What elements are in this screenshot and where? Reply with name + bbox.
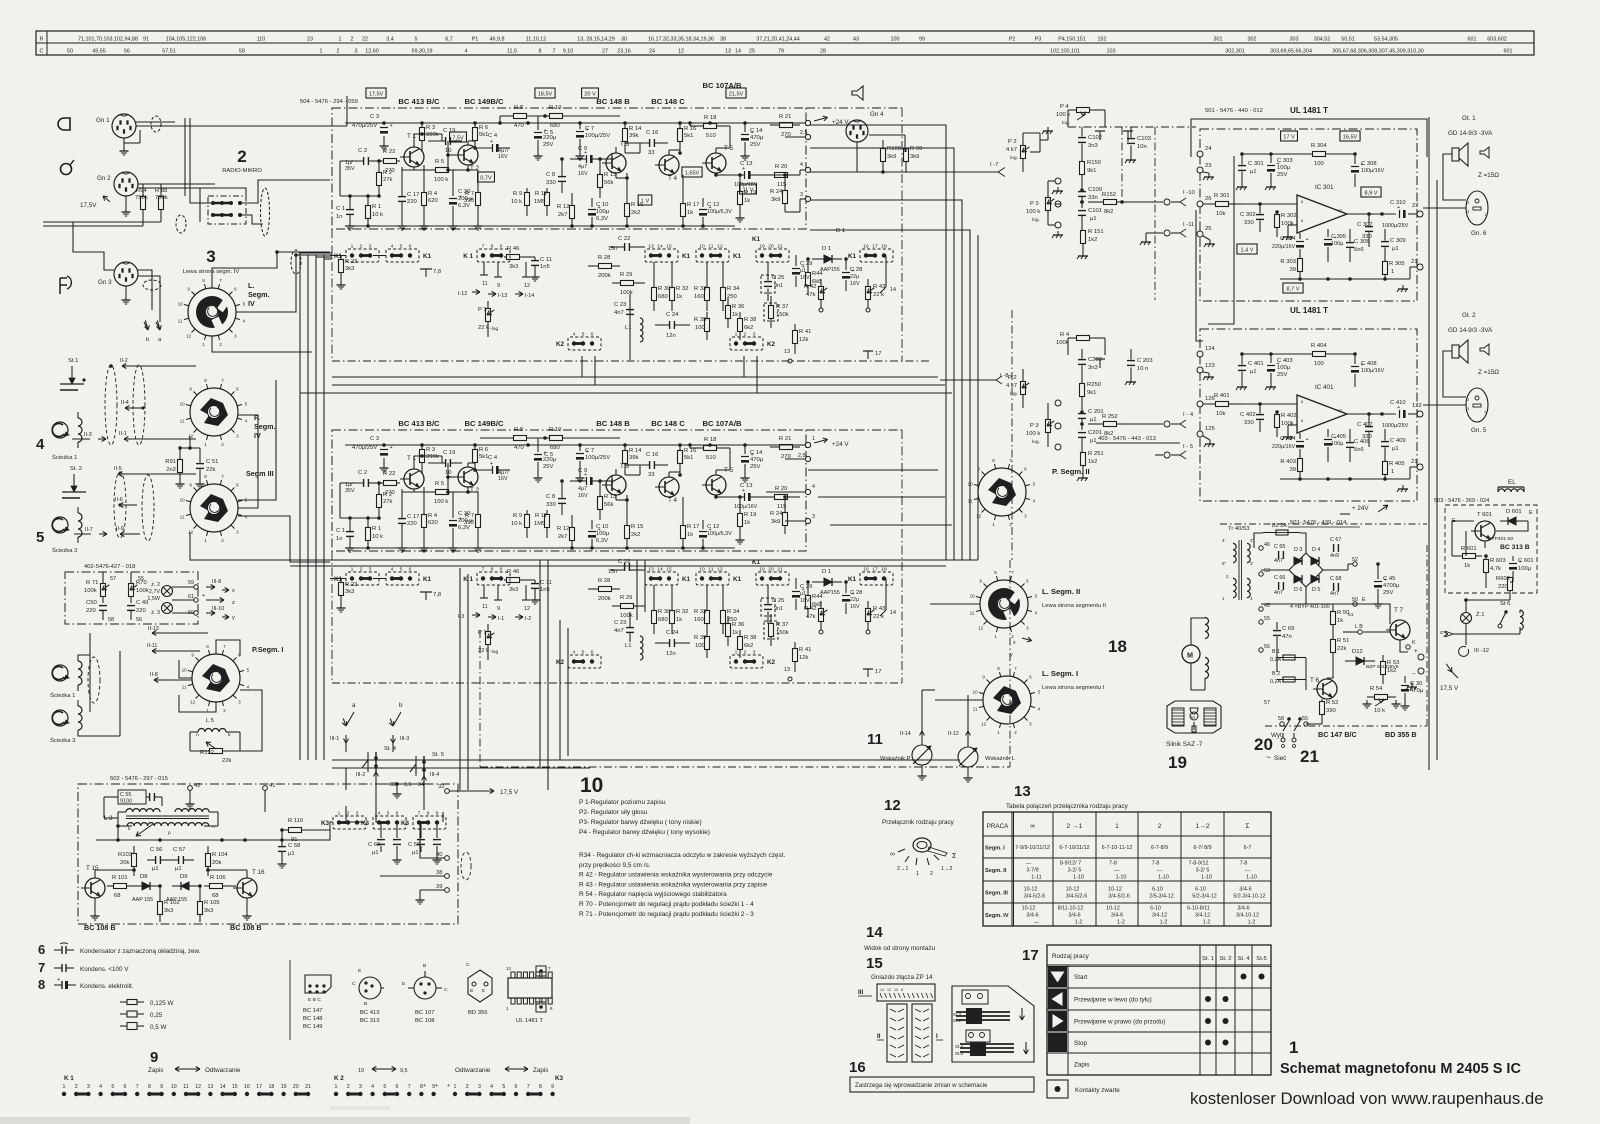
amplifier block border (ch2) xyxy=(332,430,902,683)
svg-text:3: 3 xyxy=(87,1084,90,1090)
svg-text:470µ: 470µ xyxy=(750,135,764,141)
svg-text:R 22: R 22 xyxy=(383,471,395,477)
svg-text:C 12: C 12 xyxy=(707,202,719,208)
transistor T1 (ch1) xyxy=(400,133,424,167)
svg-text:9: 9 xyxy=(436,811,439,817)
meter Wskaznik L xyxy=(958,739,1016,782)
svg-text:100µ: 100µ xyxy=(1277,365,1291,371)
input symbol o xyxy=(61,160,75,175)
svg-text:6-10: 6-10 xyxy=(1150,906,1161,912)
svg-text:150k: 150k xyxy=(776,312,789,318)
stub T symbols ch1 xyxy=(1095,131,1133,142)
svg-text:124: 124 xyxy=(1205,346,1216,352)
svg-text:47k: 47k xyxy=(806,292,816,298)
svg-text:3n3: 3n3 xyxy=(1088,143,1098,149)
label Wyt xyxy=(1254,732,1284,754)
svg-text:-log: -log xyxy=(490,326,498,332)
svg-text:100k: 100k xyxy=(1281,421,1294,427)
svg-text:100µ/6,3V: 100µ/6,3V xyxy=(707,209,732,215)
resistor R88 750k xyxy=(155,184,168,222)
pins 11 9 12 (ch1) xyxy=(480,262,530,289)
connector K1 group 4-5-6 (ch2) xyxy=(386,567,432,586)
resistor R30 680 (ch2) xyxy=(652,585,672,634)
offpage II-2 xyxy=(109,358,196,369)
pot R42 47k ch2 xyxy=(804,601,827,634)
code 503-5476-369-024 xyxy=(1434,498,1489,504)
svg-text:16V: 16V xyxy=(498,476,508,482)
wire k1 1-2-3 to 4-5-6 (ch2) xyxy=(330,578,386,580)
svg-text:I-1: I-1 xyxy=(498,616,504,622)
capacitor C68 4n7 xyxy=(1330,576,1341,597)
svg-text:R 11: R 11 xyxy=(535,513,547,519)
head Sciezka 3 (track3) xyxy=(36,507,82,554)
pot R54 10k xyxy=(1363,686,1401,714)
svg-text:R 7: R 7 xyxy=(465,513,474,519)
svg-text:51: 51 xyxy=(1348,612,1354,618)
svg-text:3/4-5/2-6: 3/4-5/2-6 xyxy=(1108,894,1130,900)
capacitor C201 u1 a xyxy=(1078,409,1104,430)
svg-text:P2- Regulator siły głosu: P2- Regulator siły głosu xyxy=(579,809,648,816)
svg-text:470µ/25V: 470µ/25V xyxy=(352,445,377,451)
table 17 rodzaj pracy xyxy=(1047,945,1271,1075)
svg-text:100: 100 xyxy=(695,643,706,649)
resistor R19 1k (ch2) xyxy=(736,495,757,544)
svg-text:Zapis: Zapis xyxy=(533,1067,548,1074)
resistor R8 470 (ch1) xyxy=(498,105,545,129)
svg-text:2: 2 xyxy=(237,147,246,166)
svg-text:20: 20 xyxy=(768,567,774,573)
svg-text:P4,150,151: P4,150,151 xyxy=(1058,37,1086,43)
svg-text:100k: 100k xyxy=(84,588,97,594)
svg-text:UL 1481 T: UL 1481 T xyxy=(516,1018,543,1024)
svg-text:24: 24 xyxy=(1205,146,1212,152)
resistor R12 2k7 (ch1) xyxy=(557,193,575,226)
svg-text:D 1: D 1 xyxy=(822,569,831,575)
svg-text:R 404: R 404 xyxy=(1311,343,1327,349)
svg-text:R 12: R 12 xyxy=(557,204,569,210)
svg-text:3: 3 xyxy=(355,49,358,55)
capacitor C302 330 (2) xyxy=(1240,404,1264,432)
svg-text:2: 2 xyxy=(337,49,340,55)
svg-text:Ścieżka 3: Ścieżka 3 xyxy=(52,546,77,554)
svg-text:R 2: R 2 xyxy=(383,492,392,498)
svg-text:R 99: R 99 xyxy=(910,146,922,152)
svg-text:III-3: III-3 xyxy=(400,736,409,742)
diode D12 BZP611 xyxy=(1345,649,1399,670)
svg-text:R 7: R 7 xyxy=(465,191,474,197)
svg-text:22µ: 22µ xyxy=(850,597,859,603)
svg-text:5k1: 5k1 xyxy=(684,455,693,461)
svg-text:14: 14 xyxy=(220,1084,226,1090)
svg-text:4n7: 4n7 xyxy=(614,628,624,634)
svg-text:680: 680 xyxy=(550,445,561,451)
svg-text:19: 19 xyxy=(1168,753,1187,772)
capacitor C306 5n6 (1) xyxy=(1346,229,1370,262)
svg-text:R44: R44 xyxy=(812,594,823,600)
svg-text:R 33: R 33 xyxy=(694,286,706,292)
svg-text:C50: C50 xyxy=(86,600,97,606)
svg-text:19: 19 xyxy=(759,567,765,573)
svg-text:18: 18 xyxy=(881,567,887,573)
svg-text:R: R xyxy=(40,37,44,43)
svg-text:33: 33 xyxy=(648,472,655,478)
svg-text:z: z xyxy=(232,600,235,606)
svg-text:57,51: 57,51 xyxy=(162,49,176,55)
resistor R33 160 (ch2) xyxy=(694,585,710,634)
offpage II-14 xyxy=(900,731,925,739)
wire radio-mikro vertical pair xyxy=(185,96,347,203)
svg-text:22 k: 22 k xyxy=(478,325,489,331)
component reference table header xyxy=(36,31,1534,55)
svg-text:503 - 5476 - 369 - 024: 503 - 5476 - 369 - 024 xyxy=(1434,498,1489,504)
svg-text:Kondens. elektrolit.: Kondens. elektrolit. xyxy=(80,983,134,990)
svg-text:1M5: 1M5 xyxy=(534,199,545,205)
svg-text:—: — xyxy=(1245,868,1251,874)
diode D1 AAP155 (ch1) xyxy=(812,246,842,273)
svg-text:100µ: 100µ xyxy=(596,209,610,215)
svg-text:R 23: R 23 xyxy=(345,582,357,588)
svg-text:3: 3 xyxy=(812,514,815,520)
svg-text:BC 149B/C: BC 149B/C xyxy=(464,97,504,106)
wire k1 1-2-3 to 4-5-6 (ch1) xyxy=(330,255,386,257)
svg-text:+: + xyxy=(1306,237,1309,243)
svg-text:C 310: C 310 xyxy=(1390,200,1406,206)
svg-text:R 14: R 14 xyxy=(629,448,642,454)
connector oval Gt. 1 xyxy=(1466,191,1488,237)
svg-text:68: 68 xyxy=(212,893,219,899)
capacitor C24 12n ch1 xyxy=(655,312,690,339)
svg-text:1: 1 xyxy=(1391,269,1394,275)
svg-text:K1: K1 xyxy=(848,576,857,583)
svg-text:11,5: 11,5 xyxy=(507,49,517,55)
resistor R110 91 xyxy=(280,818,330,843)
terminal pin 4b (ch2) xyxy=(766,484,815,495)
svg-text:152: 152 xyxy=(1098,37,1107,43)
svg-text:R 8: R 8 xyxy=(514,105,523,111)
svg-text:12: 12 xyxy=(678,49,684,55)
svg-text:6-10: 6-10 xyxy=(1152,887,1163,893)
svg-text:6-7-10-11-12: 6-7-10-11-12 xyxy=(1102,845,1133,851)
svg-text:6,3V: 6,3V xyxy=(596,216,608,222)
svg-text:1k: 1k xyxy=(1464,563,1470,569)
bus amp2 to tone xyxy=(806,441,952,525)
svg-text:5: 5 xyxy=(582,650,585,656)
svg-text:I -11: I -11 xyxy=(1183,222,1194,228)
svg-text:R 32: R 32 xyxy=(676,609,688,615)
svg-text:3/4-10-12: 3/4-10-12 xyxy=(1236,913,1259,919)
resistor R22 270 (ch2) xyxy=(376,471,400,496)
resistor R51 22k xyxy=(1331,636,1350,662)
svg-text:10k: 10k xyxy=(1216,211,1226,217)
svg-text:R 35: R 35 xyxy=(694,635,706,641)
resistor R91 2n2 xyxy=(165,446,184,488)
svg-text:C 2: C 2 xyxy=(358,470,367,476)
svg-text:8,9 V: 8,9 V xyxy=(1364,191,1377,197)
svg-text:9,10: 9,10 xyxy=(563,49,574,55)
svg-text:R 603: R 603 xyxy=(1490,558,1506,564)
resistor R33 160 (ch1) xyxy=(694,262,710,311)
svg-text:20k: 20k xyxy=(212,860,222,866)
svg-text:L 5: L 5 xyxy=(206,718,214,724)
svg-text:C 23: C 23 xyxy=(614,302,626,308)
capacitor C30psu 470u xyxy=(1401,676,1424,710)
svg-text:1k: 1k xyxy=(687,210,693,216)
capacitor C9 4u7/16V (ch2) xyxy=(570,468,602,499)
resistor R3 390k (ch1) xyxy=(420,123,439,152)
svg-text:100: 100 xyxy=(891,37,900,43)
svg-text:2: 2 xyxy=(351,37,354,43)
box zastrzega xyxy=(850,1077,1034,1092)
svg-text:390: 390 xyxy=(464,198,475,204)
wire opamp gnd stub (1) xyxy=(1282,225,1297,240)
legend kontakty zwarte xyxy=(1047,1080,1120,1098)
transistor T3 (ch2) xyxy=(602,463,629,495)
svg-text:R 36: R 36 xyxy=(732,304,744,310)
potentiometer R4 100k ch2 xyxy=(1056,332,1105,355)
svg-text:12: 12 xyxy=(981,721,987,726)
wire input node (ch2) xyxy=(340,483,381,520)
DIN socket Gn2 xyxy=(97,172,138,196)
svg-text:K3: K3 xyxy=(401,820,410,827)
svg-text:1000µ/25V: 1000µ/25V xyxy=(1382,423,1409,429)
svg-text:10: 10 xyxy=(699,567,705,573)
voltage box 16,5V xyxy=(1340,131,1360,141)
svg-text:R 22: R 22 xyxy=(383,149,395,155)
meter Wskaznik P xyxy=(880,739,932,780)
box 402-5476-427-018 xyxy=(65,564,198,624)
svg-text:M: M xyxy=(1191,715,1195,720)
svg-text:100k: 100k xyxy=(1281,221,1294,227)
svg-text:BC 107A/B: BC 107A/B xyxy=(702,419,742,428)
svg-text:9: 9 xyxy=(551,1084,554,1090)
resistor R7 390 (ch2) xyxy=(464,492,483,552)
svg-text:C 28: C 28 xyxy=(850,590,862,596)
svg-text:55: 55 xyxy=(138,576,144,582)
svg-text:1: 1 xyxy=(735,650,738,656)
svg-text:35V: 35V xyxy=(345,488,355,494)
offpage II-13 xyxy=(148,626,208,636)
svg-text:10 k: 10 k xyxy=(511,199,522,205)
svg-text:41: 41 xyxy=(269,783,276,789)
resistor R2 27k (ch2) xyxy=(377,481,393,518)
svg-text:I -8: I -8 xyxy=(1000,373,1008,379)
svg-text:12: 12 xyxy=(1338,408,1343,413)
wire opamp in (1) xyxy=(1242,202,1297,206)
resistor R11 1M5 (ch2) xyxy=(534,510,550,538)
capacitor C309 u1 (2) xyxy=(1381,429,1406,462)
svg-text:C 407: C 407 xyxy=(1357,422,1373,428)
svg-text:11: 11 xyxy=(180,515,185,520)
svg-text:BD 355: BD 355 xyxy=(468,1010,488,1016)
svg-text:Σ: Σ xyxy=(952,851,957,860)
svg-text:R602: R602 xyxy=(1496,576,1510,582)
lamp Z.2 xyxy=(147,582,172,602)
svg-text:T 4: T 4 xyxy=(668,497,677,504)
resistor R105 3k3 xyxy=(198,884,220,922)
resistor R32 1k (ch2) xyxy=(670,585,689,634)
svg-text:4: 4 xyxy=(490,1084,493,1090)
svg-text:1k: 1k xyxy=(676,294,682,300)
svg-text:1: 1 xyxy=(320,49,323,55)
svg-text:µ1: µ1 xyxy=(288,851,295,857)
resistor R7 390 (ch1) xyxy=(464,170,483,230)
svg-text:16V: 16V xyxy=(850,281,860,287)
transistor T16 xyxy=(233,869,265,898)
capacitor C17 220 (ch1) xyxy=(398,167,420,230)
resistor R1 10k (ch1) xyxy=(366,196,384,226)
svg-text:Gniazdo złącza ZP 14: Gniazdo złącza ZP 14 xyxy=(871,974,933,981)
svg-text:~: ~ xyxy=(1266,753,1271,762)
svg-text:—: — xyxy=(1157,868,1163,874)
svg-text:D 6: D 6 xyxy=(1294,587,1302,593)
svg-text:R 304: R 304 xyxy=(1311,143,1327,149)
capacitor C202 3n3 xyxy=(1078,349,1102,382)
svg-text:5n6: 5n6 xyxy=(1354,447,1364,453)
svg-text:4: 4 xyxy=(391,567,394,573)
svg-text:10: 10 xyxy=(445,148,452,154)
wire T1 collector (ch1) xyxy=(414,132,442,147)
wire opamp in (2) xyxy=(1242,402,1297,406)
svg-text:21: 21 xyxy=(777,244,783,250)
resistor R6 5k1 (ch1) xyxy=(473,123,489,148)
svg-text:Tr 40/53: Tr 40/53 xyxy=(1228,526,1250,532)
code 403-5476-443-013 xyxy=(1096,436,1180,443)
voltage box 8,7V xyxy=(1283,283,1303,293)
wire top bus from radio xyxy=(277,252,330,255)
svg-text:R 10: R 10 xyxy=(549,105,562,111)
svg-text:R 43: R 43 xyxy=(873,284,885,290)
UL 1481 T label (1) xyxy=(1290,106,1328,115)
svg-text:10 k: 10 k xyxy=(372,534,383,540)
capacitor C303 100u/25V (2) xyxy=(1265,354,1293,390)
svg-text:Segm III: Segm III xyxy=(246,469,274,478)
capacitor C59b xyxy=(433,822,442,864)
svg-text:log.: log. xyxy=(1010,391,1018,397)
resistor R46 3k3 (ch2) xyxy=(504,569,535,593)
connector K2 dot row xyxy=(334,1067,450,1097)
svg-text:R 37: R 37 xyxy=(776,304,788,310)
svg-text:R 102: R 102 xyxy=(164,900,180,906)
svg-text:C 23: C 23 xyxy=(614,620,626,626)
svg-text:100 k: 100 k xyxy=(1026,431,1040,437)
svg-text:M: M xyxy=(1187,651,1193,660)
resistor R19 1k (ch1) xyxy=(736,173,757,222)
transistor T2 (ch2) xyxy=(454,467,479,494)
wire osc emitters xyxy=(91,898,252,920)
svg-text:7,5V: 7,5V xyxy=(452,136,464,142)
svg-text:R 12: R 12 xyxy=(557,526,569,532)
svg-text:T 15: T 15 xyxy=(86,865,99,872)
svg-text:10: 10 xyxy=(171,1084,177,1090)
svg-text:402-5476-427 - 018: 402-5476-427 - 018 xyxy=(84,564,135,570)
svg-text:7: 7 xyxy=(418,811,421,817)
svg-text:1: 1 xyxy=(454,1084,457,1090)
svg-text:R 52: R 52 xyxy=(1326,700,1338,706)
svg-text:10-12: 10-12 xyxy=(1022,906,1036,912)
switch St.2 xyxy=(62,466,86,498)
switch St.1 xyxy=(60,358,86,390)
wire osc mid rail xyxy=(96,838,310,842)
svg-text:6: 6 xyxy=(124,1084,127,1090)
ground Gn3 xyxy=(122,286,131,304)
capacitor C60b xyxy=(393,822,402,864)
label BC 413 B/C (ch2) xyxy=(398,419,440,428)
svg-text:160: 160 xyxy=(694,617,705,623)
svg-text:Lewa strona segmentu I: Lewa strona segmentu I xyxy=(1042,685,1105,691)
svg-text:St. 4: St. 4 xyxy=(1237,956,1250,962)
svg-text:Przełącznik rodzaju pracy: Przełącznik rodzaju pracy xyxy=(882,819,955,826)
svg-text:55: 55 xyxy=(1302,716,1308,722)
svg-text:6-7/ 8/9: 6-7/ 8/9 xyxy=(1193,845,1211,851)
svg-text:38: 38 xyxy=(436,870,443,876)
svg-text:C 51: C 51 xyxy=(206,459,218,465)
svg-text:2: 2 xyxy=(347,1084,350,1090)
capacitor C306 5n6 (2) xyxy=(1346,429,1370,462)
svg-text:C 601: C 601 xyxy=(1518,558,1534,564)
svg-text:Wskaźnik L: Wskaźnik L xyxy=(985,756,1016,762)
svg-text:2,7V: 2,7V xyxy=(149,589,160,595)
resistor R14 39k (ch1) xyxy=(623,123,643,153)
capacitor C56 u1 xyxy=(147,847,170,872)
svg-text:4µ7: 4µ7 xyxy=(578,486,587,492)
svg-text:2n2: 2n2 xyxy=(166,467,176,473)
svg-text:R 3: R 3 xyxy=(426,125,435,131)
capacitor C13 100u/16V (ch2) xyxy=(726,483,766,510)
capacitor C58 u1 xyxy=(278,830,301,868)
svg-text:100k: 100k xyxy=(1056,340,1069,346)
svg-text:12n: 12n xyxy=(666,333,676,339)
offpage II-8 xyxy=(150,672,192,683)
svg-text:C 410: C 410 xyxy=(1390,400,1406,406)
svg-text:1,5: 1,5 xyxy=(404,782,412,788)
capacitor C203 10n xyxy=(1125,349,1153,385)
svg-text:BC 313: BC 313 xyxy=(360,1018,380,1024)
capacitor C19 10 (ch2) xyxy=(428,450,462,476)
svg-text:501- 5476 - 439 - 014: 501- 5476 - 439 - 014 xyxy=(1290,520,1347,526)
svg-text:III-2: III-2 xyxy=(356,772,365,778)
wire osc bases xyxy=(95,868,247,878)
svg-text:Σ: Σ xyxy=(1245,823,1249,830)
svg-text:C 3: C 3 xyxy=(370,114,379,120)
svg-text:P 1: P 1 xyxy=(478,630,487,636)
K3 group 7-8-9 xyxy=(401,811,446,830)
footer kostenloser xyxy=(1190,1089,1544,1108)
svg-text:III -12: III -12 xyxy=(1474,648,1489,654)
svg-text:501 - 5476 - 440 - 012: 501 - 5476 - 440 - 012 xyxy=(1205,108,1263,114)
svg-text:35V: 35V xyxy=(345,166,355,172)
resistor R50 1k xyxy=(1331,604,1354,636)
svg-text:21,5V: 21,5V xyxy=(729,92,744,98)
svg-text:R 401: R 401 xyxy=(1214,393,1230,399)
svg-text:R 46: R 46 xyxy=(507,569,519,575)
pin 13 ch2 xyxy=(784,667,792,681)
svg-text:Przewijanie w lewo (do tyłu): Przewijanie w lewo (do tyłu) xyxy=(1074,997,1152,1004)
opamp IC 401 xyxy=(1297,384,1347,433)
capacitor C29 u1/16V (ch1) xyxy=(792,255,812,287)
svg-text:R 4: R 4 xyxy=(428,513,438,519)
transformer L3 xyxy=(104,809,215,836)
svg-text:2: 2 xyxy=(360,567,363,573)
svg-text:I-3: I-3 xyxy=(458,614,464,620)
svg-text:II-2: II-2 xyxy=(120,358,128,364)
svg-text:4n7: 4n7 xyxy=(1274,590,1283,596)
svg-text:Ścieżka 1: Ścieżka 1 xyxy=(52,453,77,461)
resistor R37 150k ch2 xyxy=(764,614,789,646)
ground Gn1 xyxy=(120,130,141,155)
svg-text:II-12: II-12 xyxy=(948,731,959,737)
bus steps amp1 to bundle xyxy=(810,125,970,240)
svg-text:1k2: 1k2 xyxy=(1088,459,1097,465)
